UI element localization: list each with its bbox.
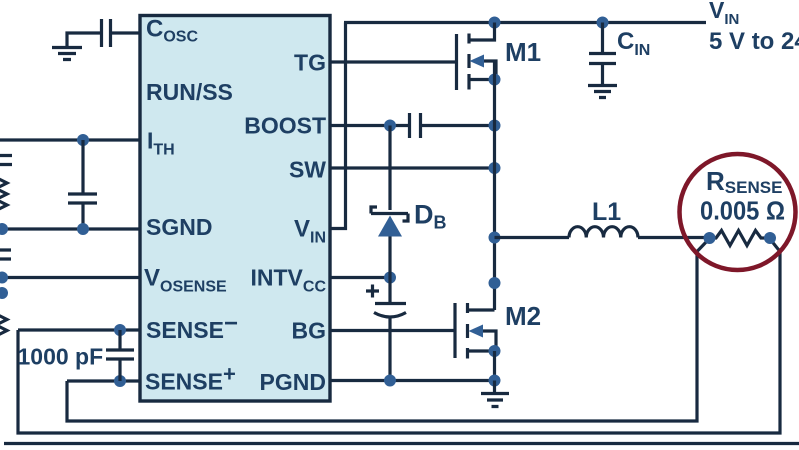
node ITH junction [77,134,89,146]
wire L1 from switch node [495,236,570,239]
svg-text:SGND: SGND [146,214,212,240]
wire VOSENSE [0,276,140,279]
wire top VIN rail [344,21,706,24]
capacitor compensation (ITH-SGND) [68,140,97,229]
svg-text:RSENSE: RSENSE [706,166,782,197]
node boost at switch vertical [489,120,501,132]
node RSENSE right [764,232,776,244]
wire to ground [67,33,100,46]
svg-text:DB: DB [414,200,447,233]
svg-text:BOOST: BOOST [244,113,326,139]
capacitor 1000 pF [106,330,134,381]
resistor left-edge lower (partial zigzag) [0,314,7,336]
capacitor COSC [102,19,111,47]
node M1 source [489,74,501,86]
wire ITH [0,138,140,141]
capacitor left-edge upper (partial) [0,156,12,165]
svg-text:PGND: PGND [260,369,326,395]
wire SENSE- pin [18,328,140,331]
node M1 drain on rail [489,17,501,29]
svg-text:M2: M2 [505,301,541,331]
plus sign [366,285,379,298]
svg-text:M1: M1 [505,37,541,67]
wire BG pin [330,329,455,332]
wire BOOST pin [330,124,408,127]
wire M2 source to pgnd [493,351,496,381]
node DB boost junction [384,120,396,132]
resistor RSENSE zigzag [710,231,771,246]
wire SENSE+ pin [67,379,140,382]
node RSENSE left [704,232,716,244]
capacitor CIN [589,23,616,85]
node edge lower [0,287,8,299]
highlight circle RSENSE [680,154,796,270]
node M2 source [489,345,501,357]
ground M2 [481,381,509,407]
IC U1 controller block [140,16,330,402]
transistor M1 [455,34,458,90]
svg-text:RUN/SS: RUN/SS [146,79,233,105]
node intvcc cap at pgnd [384,375,396,387]
wire SGND [0,227,140,230]
svg-text:BG: BG [292,318,327,344]
ground (top-left) [52,48,82,60]
node VOSENSE edge [0,272,8,284]
node PGND junction [489,375,501,387]
wire PGND pin [330,379,495,382]
node CIN on rail [597,17,609,29]
svg-text:CIN: CIN [617,28,650,59]
wire SENSE- kelvin run [18,239,780,433]
svg-text:VIN: VIN [709,0,739,28]
node SENSE+ cap junction [114,375,126,387]
capacitor left-edge lower (partial) [0,250,11,259]
svg-text:L1: L1 [592,198,621,226]
wire SENSE+ kelvin run [67,239,709,421]
transistor M2 [453,303,456,358]
wire VIN pin riser [330,23,346,229]
ground CIN [588,86,617,98]
node INTVCC junction [384,272,396,284]
wire SW pin [330,166,495,169]
node L1 branch [489,232,501,244]
inductor L1 [569,227,638,238]
wire switch node vertical [493,61,496,310]
wire boost cap to switch vertical [422,124,495,127]
svg-text:TG: TG [294,50,326,76]
node switch mid [489,277,501,289]
capacitor INTVCC bypass (polarized) [388,278,391,304]
wire COSC pin [112,31,140,34]
svg-text:0.005 Ω: 0.005 Ω [700,196,785,226]
svg-text:1000 pF: 1000 pF [18,344,104,370]
wire L1 to RSENSE [638,236,710,239]
wire bottom return rail [4,442,799,445]
diode DB (boost schottky) [388,126,391,211]
node SGND edge [0,223,8,235]
wire INTVCC pin [330,276,390,279]
svg-text:SW: SW [289,157,326,183]
node SGND junction [77,223,89,235]
capacitor boost [410,113,421,138]
wire TG pin [330,60,455,63]
svg-text:5 V to 24 V: 5 V to 24 V [709,28,799,55]
node SENSE- cap junction [114,324,126,336]
resistor left-edge upper (partial zigzag) [0,178,7,211]
node SW junction [489,162,501,174]
